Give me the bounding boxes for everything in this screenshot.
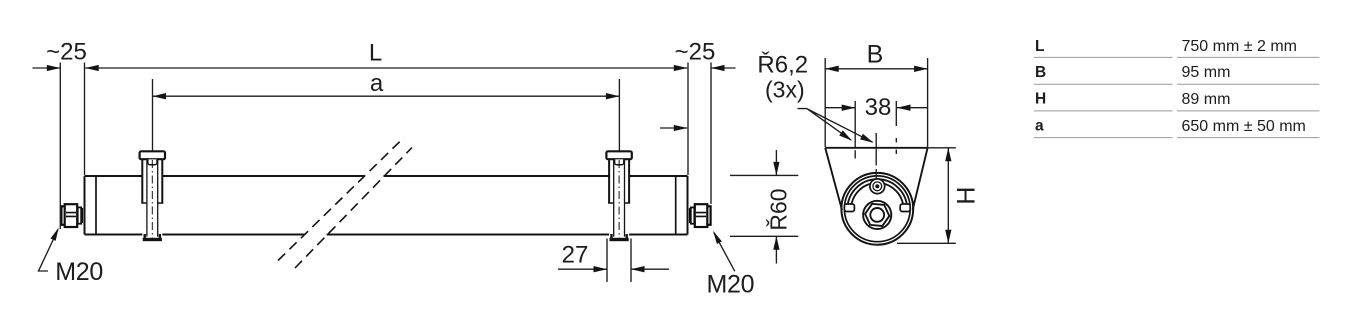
dimension H xyxy=(897,148,981,244)
svg-text:(3x): (3x) xyxy=(765,77,805,103)
svg-text:M20: M20 xyxy=(707,270,755,298)
label M20 right with leader xyxy=(707,231,755,298)
svg-text:H: H xyxy=(953,187,981,205)
end view: hex nut xyxy=(863,201,891,229)
tube end cap lines xyxy=(96,176,676,235)
dimension 38 xyxy=(825,94,927,121)
svg-text:650 mm ± 50 mm: 650 mm ± 50 mm xyxy=(1182,118,1306,135)
svg-text:~25: ~25 xyxy=(46,39,87,66)
label R6,2 (3x) with leader fan xyxy=(757,52,873,143)
dimension ~25 left xyxy=(33,39,87,230)
table row B xyxy=(1034,64,1320,84)
tube body outline xyxy=(85,176,688,235)
svg-text:95 mm: 95 mm xyxy=(1182,64,1231,81)
svg-text:89 mm: 89 mm xyxy=(1182,91,1231,108)
end view: screw xyxy=(870,179,885,194)
svg-text:27: 27 xyxy=(562,242,589,269)
bracket right xyxy=(606,151,631,241)
dimension L xyxy=(85,40,687,72)
dimension 27 xyxy=(558,239,669,283)
svg-text:Ř6,2: Ř6,2 xyxy=(757,52,808,79)
svg-text:B: B xyxy=(1035,64,1046,81)
label M20 left with leader xyxy=(39,228,103,286)
svg-text:~25: ~25 xyxy=(675,39,716,66)
svg-text:Ř60: Ř60 xyxy=(765,188,791,230)
svg-text:a: a xyxy=(370,70,384,97)
svg-text:750 mm ± 2 mm: 750 mm ± 2 mm xyxy=(1182,38,1297,55)
bracket left xyxy=(140,151,165,241)
end view: tube circles xyxy=(841,173,913,245)
dimension R60 xyxy=(730,150,798,264)
svg-text:L: L xyxy=(1035,38,1044,55)
end view: trapezoid bracket xyxy=(825,148,927,210)
dimension ~25 right xyxy=(675,39,736,205)
break lines (dashed diagonals) xyxy=(278,138,412,269)
table row L xyxy=(1034,38,1320,58)
short reference arrow at right tube end xyxy=(660,125,687,131)
gland M20 left xyxy=(61,204,82,227)
svg-text:M20: M20 xyxy=(55,258,103,286)
dimension B xyxy=(825,41,927,148)
svg-text:a: a xyxy=(1035,118,1044,135)
dimension a xyxy=(153,70,620,151)
svg-text:H: H xyxy=(1035,91,1046,108)
table row a xyxy=(1034,118,1320,138)
gland M20 right xyxy=(690,204,711,227)
end view: hole centerlines xyxy=(855,101,896,179)
end view: C-clamp band xyxy=(844,181,910,211)
svg-text:B: B xyxy=(867,41,884,69)
table row H xyxy=(1034,91,1320,111)
svg-text:L: L xyxy=(369,40,382,67)
svg-text:38: 38 xyxy=(865,94,892,121)
